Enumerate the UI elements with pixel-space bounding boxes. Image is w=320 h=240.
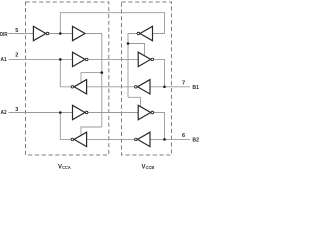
node B1: [163, 86, 166, 89]
svg-text:2: 2: [15, 53, 18, 59]
svg-text:B2: B2: [192, 138, 199, 144]
wire channel2 A to B stage: [88, 112, 138, 114]
VCCA domain dashed box: [26, 2, 109, 155]
wire channel2 B to A return: [87, 138, 135, 140]
wire channel1 A to B stage: [88, 58, 138, 60]
svg-text:A1: A1: [1, 57, 7, 63]
wire U1 output to DIR node: [49, 33, 73, 35]
inverter U3 B-domain DIR: [137, 26, 152, 40]
inverter channel1 B receive stage: [135, 80, 150, 94]
inverter channel2 B driver: [138, 105, 153, 119]
wire DIRbar rail to B domain (up and over): [60, 13, 164, 34]
inverter channel1 B driver: [138, 52, 153, 66]
svg-text:5: 5: [15, 28, 18, 34]
node A2: [59, 111, 62, 114]
wire enable channel1 B driver: [128, 44, 145, 57]
wire A2 pin: [9, 112, 73, 114]
svg-text:CCA: CCA: [62, 165, 71, 170]
inverter channel1 A driver: [71, 80, 86, 94]
inverter channel2 B receive stage: [135, 132, 150, 146]
VCCB domain dashed box: [122, 2, 172, 155]
wire channel1 B to A return: [87, 86, 135, 88]
node DIRbar junction: [59, 32, 62, 35]
wire U2 output to A enable rail: [85, 34, 102, 128]
svg-text:A2: A2: [1, 110, 7, 116]
wire enable channel2 A driver: [81, 127, 102, 136]
wire U3 output to B enable rail: [128, 34, 137, 98]
wire channel1 B driver output to B1 node: [154, 59, 165, 86]
node A enable rail junction: [101, 71, 104, 74]
svg-text:DIR: DIR: [0, 32, 8, 38]
inverter U1 DIR input: [33, 26, 48, 40]
wire DIR pin: [9, 33, 34, 35]
inverter channel1 A stage: [73, 52, 88, 66]
wire A2 node to A2 driver output: [60, 113, 71, 140]
node B enable rail junction: [127, 42, 130, 45]
wire B2 pin: [150, 138, 190, 140]
wire A1 node to A1 driver output: [60, 59, 71, 86]
svg-text:6: 6: [182, 133, 185, 139]
svg-text:3: 3: [15, 107, 18, 113]
inverter channel2 A stage: [73, 105, 88, 119]
node A1: [59, 58, 62, 61]
wire channel2 B driver output to B2 node: [154, 113, 165, 140]
svg-text:CCB: CCB: [146, 165, 155, 170]
node B2: [163, 138, 166, 141]
inverter channel2 A driver: [71, 132, 86, 146]
wire A1 pin: [9, 58, 73, 60]
wire enable channel1 A driver: [81, 73, 102, 84]
wire B1 pin: [150, 86, 190, 88]
svg-text:B1: B1: [192, 85, 199, 91]
wire enable channel2 B driver: [128, 97, 141, 106]
buffer U2 DIRbar: [73, 26, 86, 40]
svg-text:7: 7: [182, 80, 185, 86]
